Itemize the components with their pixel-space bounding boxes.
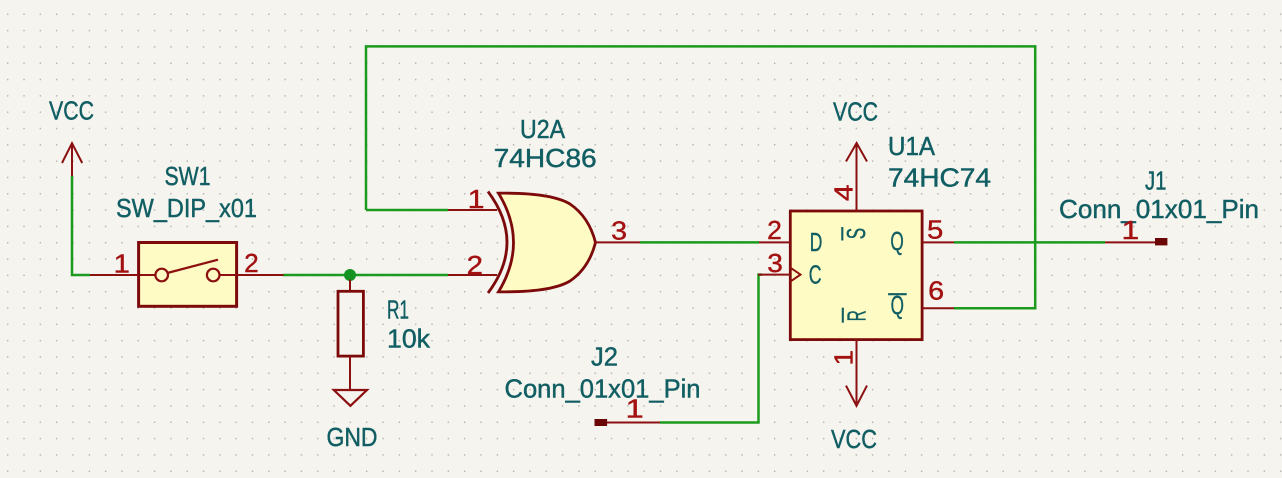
svg-text:10k: 10k xyxy=(387,324,431,354)
svg-text:6: 6 xyxy=(928,276,944,306)
svg-text:D: D xyxy=(810,229,823,257)
svg-text:VCC: VCC xyxy=(49,96,94,126)
svg-text:2: 2 xyxy=(244,248,259,278)
svg-text:1: 1 xyxy=(468,184,485,214)
svg-text:2: 2 xyxy=(767,215,782,245)
svg-text:U1A: U1A xyxy=(888,131,936,161)
svg-text:1: 1 xyxy=(114,249,130,279)
svg-text:74HC74: 74HC74 xyxy=(888,163,991,193)
svg-text:R: R xyxy=(843,310,871,321)
svg-text:U2A: U2A xyxy=(520,114,566,144)
svg-text:74HC86: 74HC86 xyxy=(494,143,597,173)
svg-text:SW1: SW1 xyxy=(165,161,211,191)
svg-text:VCC: VCC xyxy=(833,97,878,127)
svg-text:C: C xyxy=(809,261,822,289)
svg-text:S: S xyxy=(843,228,871,239)
svg-text:VCC: VCC xyxy=(831,424,877,454)
svg-text:J2: J2 xyxy=(591,342,618,372)
svg-text:4: 4 xyxy=(829,185,859,202)
svg-text:Q: Q xyxy=(890,228,903,256)
svg-text:SW_DIP_x01: SW_DIP_x01 xyxy=(116,193,257,223)
svg-text:J1: J1 xyxy=(1145,166,1167,196)
svg-text:Conn_01x01_Pin: Conn_01x01_Pin xyxy=(505,374,701,404)
svg-text:R1: R1 xyxy=(387,295,409,325)
svg-text:3: 3 xyxy=(767,248,783,278)
svg-text:1: 1 xyxy=(1122,215,1140,245)
svg-text:Q: Q xyxy=(891,292,904,320)
svg-text:3: 3 xyxy=(611,216,627,246)
svg-text:1: 1 xyxy=(626,394,644,424)
svg-text:Conn_01x01_Pin: Conn_01x01_Pin xyxy=(1059,194,1259,224)
svg-text:5: 5 xyxy=(927,214,943,244)
svg-text:1: 1 xyxy=(829,350,859,366)
svg-text:2: 2 xyxy=(467,250,483,280)
svg-text:GND: GND xyxy=(327,422,378,452)
